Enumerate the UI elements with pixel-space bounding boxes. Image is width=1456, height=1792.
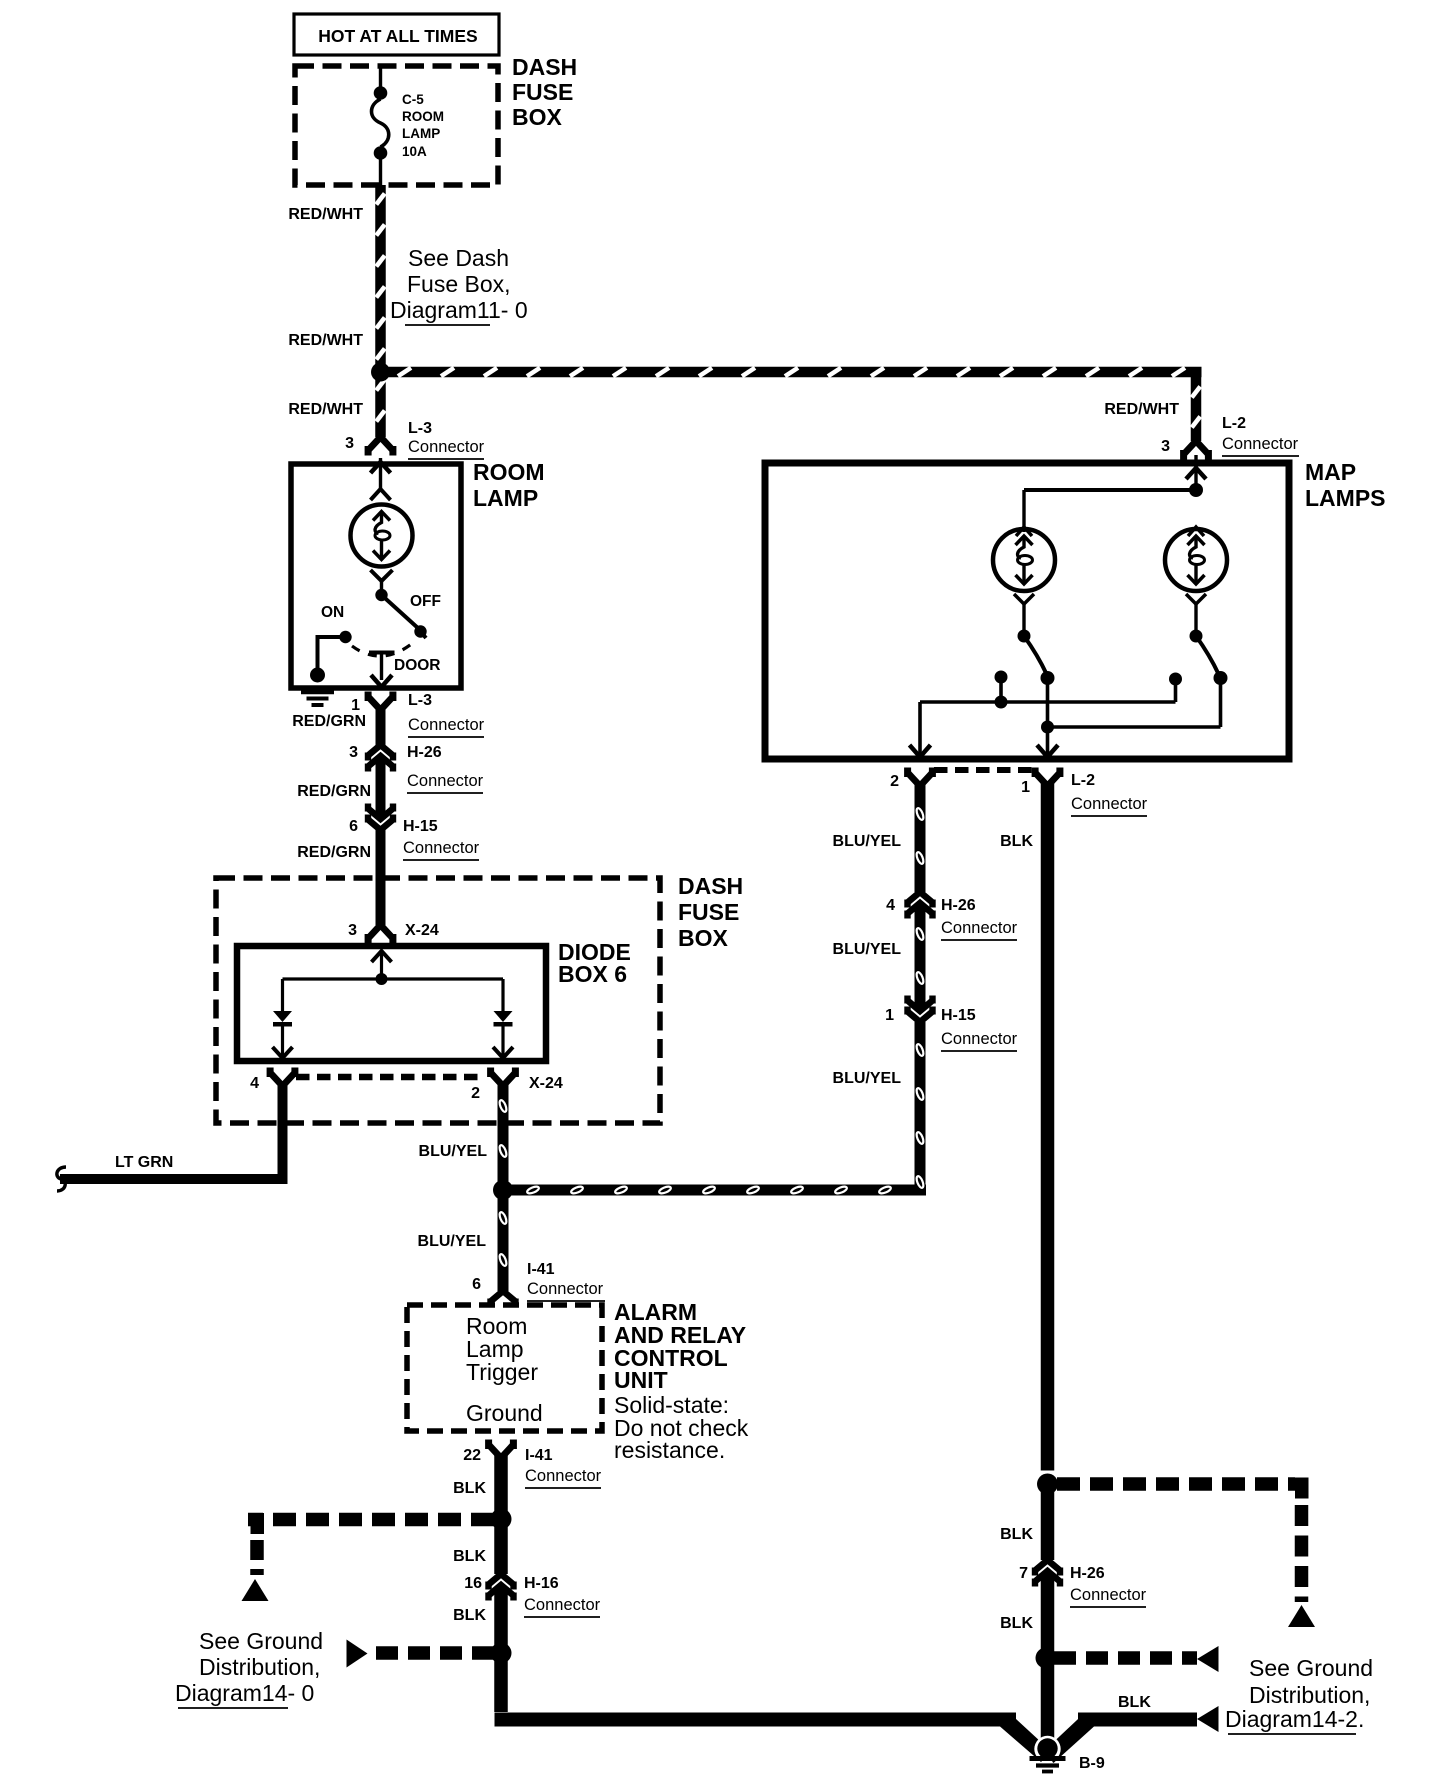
svg-text:3: 3	[349, 744, 358, 761]
svg-text:RED/GRN: RED/GRN	[297, 783, 371, 800]
svg-text:Connector: Connector	[527, 1280, 604, 1298]
svg-text:H-26: H-26	[941, 897, 976, 914]
svg-text:Connector: Connector	[524, 1596, 601, 1614]
svg-text:BLK: BLK	[453, 1607, 486, 1624]
svg-text:1: 1	[351, 697, 360, 714]
svg-text:Connector: Connector	[941, 919, 1018, 937]
svg-text:Connector: Connector	[525, 1467, 602, 1485]
svg-text:BLK: BLK	[1118, 1694, 1151, 1711]
svg-text:L-3: L-3	[408, 692, 432, 709]
svg-text:BOX: BOX	[678, 925, 729, 951]
svg-text:BLU/YEL: BLU/YEL	[419, 1143, 488, 1160]
svg-text:Connector: Connector	[941, 1030, 1018, 1048]
svg-text:LAMP: LAMP	[473, 485, 538, 511]
svg-text:DOOR: DOOR	[394, 657, 441, 674]
svg-text:MAP: MAP	[1305, 459, 1356, 485]
svg-text:RED/WHT: RED/WHT	[1104, 401, 1179, 418]
svg-text:resistance.: resistance.	[614, 1437, 725, 1463]
svg-text:6: 6	[472, 1276, 481, 1293]
svg-text:BOX: BOX	[512, 104, 563, 130]
svg-text:I-41: I-41	[527, 1261, 555, 1278]
svg-text:H-16: H-16	[524, 1575, 559, 1592]
svg-text:H-26: H-26	[407, 744, 442, 761]
svg-text:BLU/YEL: BLU/YEL	[418, 1233, 487, 1250]
svg-text:See Ground: See Ground	[1249, 1655, 1373, 1681]
svg-text:4: 4	[886, 897, 895, 914]
svg-text:Trigger: Trigger	[466, 1359, 538, 1385]
svg-text:C-5: C-5	[402, 92, 424, 107]
svg-text:3: 3	[348, 922, 357, 939]
svg-text:Connector: Connector	[403, 839, 480, 857]
svg-text:BOX 6: BOX 6	[558, 961, 627, 987]
svg-text:2: 2	[890, 773, 899, 790]
svg-text:H-26: H-26	[1070, 1565, 1105, 1582]
svg-text:Ground: Ground	[466, 1400, 543, 1426]
svg-text:FUSE: FUSE	[678, 899, 739, 925]
svg-text:RED/WHT: RED/WHT	[288, 401, 363, 418]
svg-text:DASH: DASH	[678, 873, 743, 899]
svg-text:4: 4	[250, 1075, 259, 1092]
svg-text:RED/GRN: RED/GRN	[292, 713, 366, 730]
svg-text:B-9: B-9	[1079, 1755, 1105, 1772]
svg-text:16: 16	[464, 1575, 482, 1592]
svg-text:Distribution,: Distribution,	[199, 1654, 320, 1680]
svg-text:Diagram11- 0: Diagram11- 0	[390, 297, 528, 323]
svg-text:See Dash: See Dash	[408, 245, 509, 271]
svg-text:BLU/YEL: BLU/YEL	[833, 941, 902, 958]
svg-text:BLU/YEL: BLU/YEL	[833, 1070, 902, 1087]
svg-text:HOT AT ALL TIMES: HOT AT ALL TIMES	[318, 26, 477, 46]
svg-text:Connector: Connector	[1071, 795, 1148, 813]
svg-text:1: 1	[1021, 779, 1030, 796]
svg-text:X-24: X-24	[529, 1075, 563, 1092]
svg-text:See Ground: See Ground	[199, 1628, 323, 1654]
svg-text:BLU/YEL: BLU/YEL	[833, 833, 902, 850]
svg-text:LT GRN: LT GRN	[115, 1154, 173, 1171]
svg-text:UNIT: UNIT	[614, 1367, 668, 1393]
svg-text:OFF: OFF	[410, 593, 441, 610]
svg-text:L-3: L-3	[408, 420, 432, 437]
svg-text:10A: 10A	[402, 144, 427, 159]
svg-text:I-41: I-41	[525, 1447, 553, 1464]
svg-text:1: 1	[885, 1007, 894, 1024]
svg-text:Distribution,: Distribution,	[1249, 1682, 1370, 1708]
svg-text:Connector: Connector	[1222, 435, 1299, 453]
svg-text:Diagram14- 0: Diagram14- 0	[175, 1680, 314, 1706]
svg-text:ON: ON	[321, 604, 344, 621]
svg-text:RED/WHT: RED/WHT	[288, 332, 363, 349]
svg-text:ROOM: ROOM	[473, 459, 545, 485]
svg-text:RED/GRN: RED/GRN	[297, 844, 371, 861]
svg-text:LAMP: LAMP	[402, 126, 440, 141]
svg-text:BLK: BLK	[1000, 833, 1033, 850]
svg-text:7: 7	[1019, 1565, 1028, 1582]
svg-text:H-15: H-15	[941, 1007, 976, 1024]
svg-text:Connector: Connector	[1070, 1586, 1147, 1604]
svg-text:Connector: Connector	[408, 438, 485, 456]
svg-text:FUSE: FUSE	[512, 79, 573, 105]
svg-text:Connector: Connector	[407, 772, 484, 790]
svg-text:3: 3	[1161, 438, 1170, 455]
svg-text:Fuse Box,: Fuse Box,	[407, 271, 511, 297]
svg-text:ROOM: ROOM	[402, 109, 444, 124]
svg-text:L-2: L-2	[1071, 772, 1095, 789]
svg-text:RED/WHT: RED/WHT	[288, 206, 363, 223]
svg-text:Diagram14-2.: Diagram14-2.	[1225, 1706, 1364, 1732]
svg-text:Connector: Connector	[408, 716, 485, 734]
svg-text:DASH: DASH	[512, 54, 577, 80]
svg-text:6: 6	[349, 818, 358, 835]
svg-text:L-2: L-2	[1222, 415, 1246, 432]
svg-text:LAMPS: LAMPS	[1305, 485, 1386, 511]
svg-text:3: 3	[345, 435, 354, 452]
svg-text:22: 22	[463, 1447, 481, 1464]
svg-text:BLK: BLK	[1000, 1526, 1033, 1543]
svg-text:BLK: BLK	[453, 1548, 486, 1565]
svg-text:BLK: BLK	[1000, 1615, 1033, 1632]
svg-text:2: 2	[471, 1085, 480, 1102]
svg-text:H-15: H-15	[403, 818, 438, 835]
svg-text:BLK: BLK	[453, 1480, 486, 1497]
svg-text:X-24: X-24	[405, 922, 439, 939]
